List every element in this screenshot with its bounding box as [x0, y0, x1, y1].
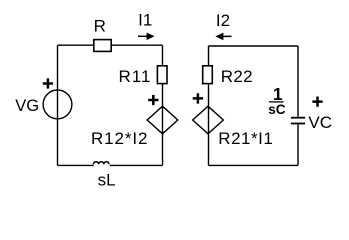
- svg-text:sL: sL: [98, 170, 116, 189]
- dependent source E2 diamond R21*I1: [193, 106, 224, 134]
- dependent source E1 diamond R12*I2: [147, 106, 178, 134]
- plus of VC: [312, 97, 322, 107]
- wire: left loop bottom: [58, 164, 163, 166]
- svg-text:VC: VC: [308, 113, 332, 132]
- svg-text:R11: R11: [119, 67, 152, 86]
- svg-text:R21*I1: R21*I1: [218, 129, 273, 148]
- current arrow I1: [138, 35, 148, 37]
- wire: right loop left side: [208, 46, 210, 165]
- svg-text:I1: I1: [138, 11, 152, 30]
- svg-text:VG: VG: [15, 97, 39, 115]
- resistor R11: [157, 66, 167, 84]
- current arrow I2: [222, 35, 232, 37]
- svg-text:I2: I2: [216, 11, 230, 30]
- inductor sL: [93, 162, 109, 165]
- svg-text:R12*I2: R12*I2: [91, 129, 148, 148]
- plus of dependent source E1: [148, 95, 158, 105]
- capacitor 1/sC plate top: [291, 117, 305, 119]
- resistor R: [94, 40, 111, 52]
- fraction bar: [269, 101, 284, 103]
- wire: left loop left side: [57, 45, 59, 165]
- wire: right loop top: [209, 45, 299, 47]
- wire: left loop top: [58, 44, 163, 46]
- wire: right loop right side upper: [297, 46, 299, 117]
- wire: left loop right side: [162, 45, 164, 165]
- svg-text:sC: sC: [268, 102, 286, 117]
- resistor R22: [203, 66, 213, 84]
- wire: right loop right side lower: [297, 124, 299, 165]
- plus of dependent source E2: [193, 93, 203, 103]
- capacitor 1/sC plate bottom: [291, 123, 305, 125]
- svg-text:R22: R22: [221, 67, 253, 86]
- svg-text:R: R: [94, 17, 106, 36]
- plus of VG: [43, 78, 53, 88]
- wire: right loop bottom: [209, 164, 299, 166]
- voltage source VG: [43, 90, 72, 119]
